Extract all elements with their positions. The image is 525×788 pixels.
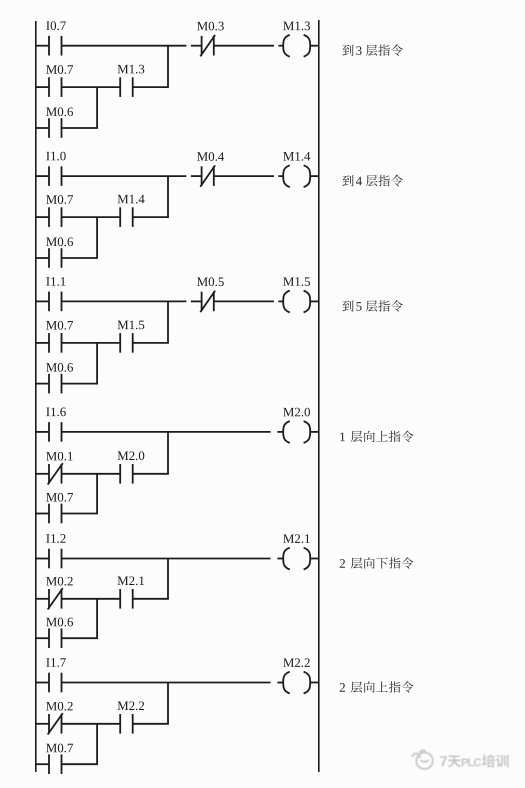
- label M0.7: [46, 195, 73, 204]
- label I0.7: [46, 21, 66, 30]
- wire rung4 branch: left rail to contact M0.1: [36, 473, 49, 475]
- label M0.7: [46, 493, 73, 502]
- wire rung6 branch2: left rail to contact M0.7: [36, 763, 49, 765]
- label M2.1: [118, 576, 144, 585]
- wire rung4: coil M2.0 to right rail: [310, 431, 319, 433]
- label coil M2.0: [283, 408, 310, 417]
- contact I1.1 (NO): [49, 292, 62, 312]
- wire rung4 branch2: left rail to contact M0.7: [36, 513, 49, 515]
- wire rung3 branch2: left rail to contact M0.6: [36, 383, 49, 385]
- left power rail: [35, 21, 37, 772]
- wire rung6: branch2 junction vertical up to branch1: [96, 724, 98, 764]
- wire rung1 branch: left rail to contact M0.7: [36, 86, 49, 88]
- wire rung3: branch junction vertical up to main line: [167, 301, 169, 343]
- wire rung5 branch: left rail to contact M0.2: [36, 598, 49, 600]
- coil M1.5: [283, 291, 310, 313]
- wire rung3: NC contact M0.5 to coil M1.5: [214, 300, 283, 302]
- coil M1.4: [283, 165, 310, 187]
- contact M0.2 (NC): [48, 713, 63, 734]
- contact M2.2 (NO): [120, 714, 133, 734]
- label I1.2: [46, 534, 65, 543]
- wire rung5: left rail to contact I1.2: [36, 558, 49, 560]
- text comment rung6: 2层向上指令: [340, 681, 414, 693]
- contact M0.7 (NO): [49, 207, 62, 227]
- label M0.4: [197, 152, 224, 161]
- label M0.2: [46, 577, 73, 586]
- label M1.5: [118, 321, 145, 330]
- contact M0.7 (NO): [49, 77, 62, 97]
- wire rung3 branch: left rail to contact M0.7: [36, 342, 49, 344]
- wire rung5 branch2: contact M0.6 to junction: [62, 637, 99, 639]
- contact M0.6 (NO): [49, 374, 62, 394]
- text comment rung4: 1层向上指令: [340, 431, 413, 443]
- wire rung1 branch2: left rail to contact M0.6: [36, 127, 49, 129]
- wire rung4 branch2: contact M0.7 to junction: [62, 513, 99, 515]
- wire rung1 branch: contact M1.3 to junction: [133, 86, 169, 88]
- wire rung3: branch2 junction vertical up to branch1: [96, 343, 98, 384]
- label coil M1.4: [283, 152, 310, 161]
- wire rung2: branch junction vertical up to main line: [167, 176, 169, 217]
- label M1.3: [118, 65, 145, 74]
- wire rung1: coil M1.3 to right rail: [310, 45, 319, 47]
- wire rung2 branch: left rail to contact M0.7: [36, 216, 49, 218]
- wire rung4: left rail to contact I1.6: [36, 431, 49, 433]
- NC contact M0.5: [200, 291, 215, 312]
- wire rung3 branch: contact M1.5 to junction: [133, 342, 169, 344]
- right power rail: [318, 20, 320, 772]
- wire rung2: NC contact M0.4 to coil M1.4: [214, 175, 283, 177]
- wire rung1 branch2: contact M0.6 to junction: [62, 127, 99, 129]
- wire rung1: left rail to contact I0.7: [36, 45, 49, 47]
- NC contact M0.3: [200, 35, 215, 56]
- wire rung3: contact I1.1 to NC contact M0.5: [62, 300, 202, 302]
- text comment rung2: 到4层指令: [342, 175, 402, 187]
- wire rung3 branch2: contact M0.6 to junction: [62, 383, 99, 385]
- contact I1.0 (NO): [49, 166, 62, 186]
- label M0.6: [46, 363, 73, 372]
- wire rung1: NC contact M0.3 to coil M1.3: [214, 45, 283, 47]
- label coil M2.1: [283, 534, 309, 543]
- text comment rung3: 到5层指令: [342, 300, 402, 312]
- label M0.6: [46, 107, 73, 116]
- text comment rung1: 到3层指令: [342, 44, 402, 56]
- contact M1.5 (NO): [120, 333, 133, 353]
- label M2.0: [118, 451, 145, 460]
- label I1.6: [46, 408, 66, 417]
- label M0.6: [46, 618, 73, 627]
- wire rung2: coil M1.4 to right rail: [310, 175, 319, 177]
- wire rung2 branch2: left rail to contact M0.6: [36, 257, 49, 259]
- contact M0.7 (NO): [49, 504, 62, 524]
- label M0.2: [46, 702, 73, 711]
- wire rung2: left rail to contact I1.0: [36, 175, 49, 177]
- contact M0.7 (NO): [49, 333, 62, 353]
- watermark logo (gray circular scribble): [412, 750, 433, 769]
- label M0.1: [46, 452, 72, 461]
- wire rung1 branch: contact M0.7 to contact M1.3: [62, 86, 121, 88]
- label coil M2.2: [283, 658, 310, 667]
- wire rung4: branch junction vertical up to main line: [167, 432, 169, 474]
- contact M1.4 (NO): [120, 207, 133, 227]
- label coil M1.3: [283, 22, 310, 31]
- contact M0.1 (NC): [48, 463, 63, 484]
- wire rung3: coil M1.5 to right rail: [310, 300, 319, 302]
- wire rung3 branch: contact M0.7 to contact M1.5: [62, 342, 121, 344]
- wire rung5 branch2: left rail to contact M0.6: [36, 637, 49, 639]
- wire rung2 branch2: contact M0.6 to junction: [62, 257, 99, 259]
- wire rung6 branch: contact M2.2 to junction: [133, 723, 169, 725]
- wire rung1: contact I0.7 to NC contact M0.3: [62, 45, 202, 47]
- wire rung4: branch2 junction vertical up to branch1: [96, 474, 98, 514]
- coil M2.1: [283, 548, 310, 570]
- NC contact M0.4: [200, 165, 215, 186]
- label I1.0: [46, 152, 65, 161]
- text comment rung5: 2层向下指令: [340, 557, 414, 569]
- wire rung5: branch junction vertical up to main line: [167, 559, 169, 599]
- contact I1.7 (NO): [49, 673, 62, 693]
- contact M0.6 (NO): [49, 248, 62, 268]
- label M0.7: [46, 744, 73, 753]
- wire rung1: branch2 junction vertical up to branch1: [96, 87, 98, 128]
- wire rung3: left rail to contact I1.1: [36, 300, 49, 302]
- wire rung5: contact I1.2 to coil M2.1: [62, 558, 284, 560]
- contact M2.1 (NO): [120, 589, 133, 609]
- wire rung5: branch2 junction vertical up to branch1: [96, 599, 98, 638]
- watermark text 7天PLC培训: [440, 754, 508, 767]
- wire rung6 branch: contact M0.2 to contact M2.2: [62, 723, 121, 725]
- wire rung4 branch: contact M2.0 to junction: [133, 473, 169, 475]
- wire rung2: contact I1.0 to NC contact M0.4: [62, 175, 202, 177]
- label M0.3: [197, 22, 224, 31]
- contact I1.2 (NO): [49, 549, 62, 569]
- wire rung6 branch2: contact M0.7 to junction: [62, 763, 99, 765]
- contact M0.6 (NO): [49, 118, 62, 138]
- wire rung4 branch: contact M0.1 to contact M2.0: [62, 473, 121, 475]
- label M0.7: [46, 65, 73, 74]
- wire rung6: contact I1.7 to coil M2.2: [62, 682, 284, 684]
- wire rung6 branch: left rail to contact M0.2: [36, 723, 49, 725]
- coil M1.3: [283, 35, 310, 57]
- contact I1.6 (NO): [49, 422, 62, 442]
- contact M0.2 (NC): [48, 588, 63, 609]
- label I1.7: [46, 658, 66, 667]
- contact M2.0 (NO): [120, 464, 133, 484]
- label M0.6: [46, 237, 73, 246]
- wire rung5 branch: contact M0.2 to contact M2.1: [62, 598, 121, 600]
- wire rung2 branch: contact M0.7 to contact M1.4: [62, 216, 121, 218]
- wire rung6: left rail to contact I1.7: [36, 682, 49, 684]
- wire rung6: coil M2.2 to right rail: [310, 682, 319, 684]
- label I1.1: [46, 277, 65, 286]
- label coil M1.5: [283, 277, 310, 286]
- wire rung2: branch2 junction vertical up to branch1: [96, 217, 98, 258]
- contact M0.7 (NO): [49, 754, 62, 774]
- coil M2.0: [283, 421, 310, 443]
- label M1.4: [118, 195, 145, 204]
- wire rung5: coil M2.1 to right rail: [310, 558, 319, 560]
- wire rung5 branch: contact M2.1 to junction: [133, 598, 169, 600]
- wire rung4: contact I1.6 to coil M2.0: [62, 431, 284, 433]
- wire rung2 branch: contact M1.4 to junction: [133, 216, 169, 218]
- wire rung1: branch junction vertical up to main line: [167, 46, 169, 87]
- label M0.5: [197, 277, 224, 286]
- coil M2.2: [283, 672, 310, 694]
- wire rung6: branch junction vertical up to main line: [167, 683, 169, 724]
- contact M0.6 (NO): [49, 628, 62, 648]
- contact I0.7 (NO): [49, 36, 62, 56]
- contact M1.3 (NO): [120, 77, 133, 97]
- label M0.7: [46, 321, 73, 330]
- label M2.2: [118, 701, 145, 710]
